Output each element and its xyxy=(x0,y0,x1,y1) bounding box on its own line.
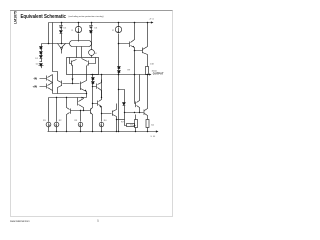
svg-text:LM1875: LM1875 xyxy=(13,10,18,24)
svg-text:Equivalent Schematic: Equivalent Schematic xyxy=(21,14,67,20)
svg-text:I1: I1 xyxy=(72,30,75,32)
svg-text:(excluding active protection c: (excluding active protection circuitry) xyxy=(69,15,104,18)
svg-text:R9: R9 xyxy=(128,70,132,72)
svg-text:R7: R7 xyxy=(121,122,125,124)
svg-text:+IN: +IN xyxy=(33,85,37,89)
svg-text:D2: D2 xyxy=(36,63,40,65)
svg-text:OUTPUT: OUTPUT xyxy=(153,71,164,75)
svg-text:D6: D6 xyxy=(95,27,99,29)
svg-text:R1: R1 xyxy=(43,120,47,122)
svg-text:CC: CC xyxy=(152,19,155,21)
svg-text:I4: I4 xyxy=(95,53,98,55)
svg-text:1Ω: 1Ω xyxy=(130,124,133,126)
svg-text:I2: I2 xyxy=(112,30,115,32)
svg-text:R2: R2 xyxy=(59,120,63,122)
svg-text:1Ω: 1Ω xyxy=(151,124,154,126)
svg-text:www.national.com: www.national.com xyxy=(10,219,30,223)
svg-text:EE: EE xyxy=(153,136,155,138)
svg-text:D5: D5 xyxy=(64,27,68,29)
svg-text:1.5K: 1.5K xyxy=(150,64,155,66)
svg-text:R4: R4 xyxy=(104,120,108,122)
svg-text:-IN: -IN xyxy=(33,77,37,81)
svg-text:R3: R3 xyxy=(75,120,79,122)
svg-text:D1: D1 xyxy=(35,58,39,60)
svg-text:5: 5 xyxy=(97,219,99,223)
